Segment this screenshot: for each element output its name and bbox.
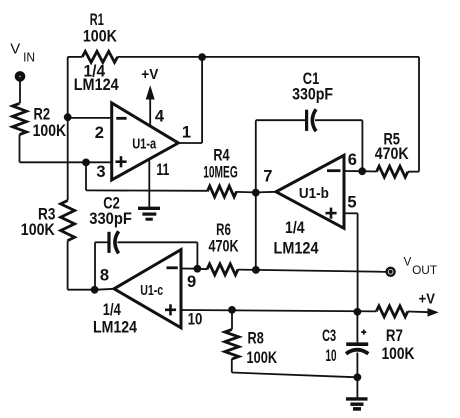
- op-amp U1-c: [93, 250, 202, 337]
- svg-text:330pF: 330pF: [89, 209, 132, 228]
- node junction C3 / pin5: [354, 308, 361, 315]
- wire U1-c pin 10 bias rail: [181, 310, 376, 311]
- svg-text:4: 4: [155, 107, 165, 125]
- wire pin 11 to ground: [148, 160, 150, 208]
- svg-text:IN: IN: [23, 51, 35, 65]
- svg-text:11: 11: [156, 161, 169, 179]
- svg-text:C3: C3: [322, 326, 336, 345]
- svg-text:V: V: [404, 257, 412, 269]
- wire U1-c pin 9 to R6 node: [181, 268, 197, 270]
- wire C2 right down to pin 9 node: [196, 242, 198, 268]
- capacitor C3 10: [322, 312, 368, 378]
- resistor R5 470K: [362, 129, 419, 177]
- svg-text:100K: 100K: [247, 348, 278, 367]
- node junction pin6 / C1 / R5: [359, 168, 366, 175]
- svg-text:LM124: LM124: [274, 239, 319, 258]
- svg-text:R7: R7: [386, 326, 403, 345]
- wire to ground: [356, 377, 358, 398]
- svg-text:+V: +V: [141, 66, 158, 83]
- svg-text:100K: 100K: [83, 26, 118, 45]
- svg-text:10: 10: [326, 346, 337, 365]
- wire C1 left down to output node: [255, 120, 257, 192]
- capacitor C2 330pF: [89, 193, 197, 253]
- ground bottom: [346, 399, 368, 409]
- svg-text:R8: R8: [248, 329, 264, 348]
- op-amp U1-b: [263, 151, 357, 258]
- svg-text:LM124: LM124: [74, 76, 120, 94]
- wire R8 bottom to ground node: [232, 373, 358, 378]
- wire U1-b pin 6 to R5 node: [344, 170, 362, 172]
- svg-text:U1-a: U1-a: [132, 135, 156, 152]
- node junction top wire and U1-a output: [199, 54, 206, 61]
- svg-text:10: 10: [188, 311, 203, 329]
- wire C2 left down to U1-c output node: [94, 242, 96, 289]
- wire R4 to U1-b output node: [237, 191, 256, 194]
- wire U1-c output pin 8: [95, 289, 114, 290]
- wire pin 2 to U1-a: [68, 117, 112, 119]
- svg-text:9: 9: [187, 273, 196, 291]
- wire U1-a output pin 1 up to top wire: [178, 57, 202, 143]
- svg-text:LM124: LM124: [93, 319, 138, 337]
- svg-text:5: 5: [347, 193, 356, 211]
- svg-text:OUT: OUT: [412, 263, 438, 277]
- svg-text:1/4: 1/4: [103, 300, 121, 319]
- wire top horizontal left segment to R1: [68, 56, 83, 58]
- node VIN terminal: [10, 40, 35, 81]
- node junction pin3 and R4 branch: [83, 159, 90, 166]
- wire U1-b pin 5 down to bias node: [344, 213, 358, 311]
- resistor R8 100K: [225, 310, 278, 373]
- svg-text:U1-c: U1-c: [140, 282, 163, 299]
- wire R2 bottom to U1-a pin 3: [20, 135, 112, 163]
- resistor R1 100K: [82, 10, 117, 63]
- node junction R8 top: [229, 307, 236, 314]
- wire C1 right down to pin 6 node: [361, 120, 363, 171]
- resistor R6 470K: [197, 220, 256, 275]
- node junction R4 / U1-b output / C1: [252, 189, 259, 196]
- svg-text:470K: 470K: [375, 144, 410, 163]
- svg-text:100K: 100K: [382, 344, 416, 363]
- resistor R7 100K: [376, 306, 415, 363]
- svg-text:+V: +V: [419, 290, 435, 307]
- svg-text:330pF: 330pF: [292, 84, 333, 103]
- resistor R3 100K: [21, 201, 75, 241]
- svg-text:8: 8: [100, 267, 109, 285]
- wire top net from R1 left corner down the left side: [67, 57, 69, 201]
- node VOUT terminal: [387, 257, 438, 278]
- wire to VOUT terminal: [256, 270, 386, 272]
- node junction U1-a pin2: [64, 114, 71, 121]
- svg-text:10MEG: 10MEG: [203, 163, 238, 182]
- wire U1-b output pin 7: [256, 191, 276, 194]
- wire top horizontal from R1 to right corner: [118, 56, 420, 58]
- svg-text:V: V: [10, 40, 20, 57]
- power +V arrow pin 4: [141, 66, 158, 126]
- svg-text:3: 3: [96, 163, 105, 181]
- op-amp U1-a: [74, 62, 191, 181]
- node junction R6 / VOUT wire: [253, 267, 260, 274]
- ground under U1-a pin 11: [138, 208, 160, 219]
- svg-text:U1-b: U1-b: [299, 185, 329, 202]
- node junction ground: [354, 374, 361, 381]
- node junction pin9 / C2 / R6: [194, 265, 201, 272]
- node junction U1-c output / R3 / C2: [91, 286, 98, 293]
- svg-text:7: 7: [263, 168, 272, 186]
- wire right vertical down to R5: [418, 57, 420, 172]
- svg-text:1: 1: [182, 123, 191, 141]
- power +V arrow right: [408, 290, 438, 316]
- resistor R2 100K: [13, 103, 67, 140]
- wire VIN terminal to R2: [19, 81, 21, 104]
- resistor R4 10MEG: [203, 146, 238, 197]
- svg-text:2: 2: [95, 124, 104, 142]
- svg-text:100K: 100K: [33, 121, 67, 140]
- capacitor C1 330pF: [256, 69, 363, 131]
- wire output node down to R6 node: [255, 192, 257, 270]
- wire pin3 node down and right to R4: [86, 162, 207, 190]
- svg-text:6: 6: [348, 151, 357, 169]
- wire R3 bottom to U1-c output node: [68, 241, 95, 290]
- svg-text:1/4: 1/4: [285, 218, 305, 237]
- svg-text:470K: 470K: [209, 236, 240, 255]
- svg-text:100K: 100K: [21, 220, 56, 239]
